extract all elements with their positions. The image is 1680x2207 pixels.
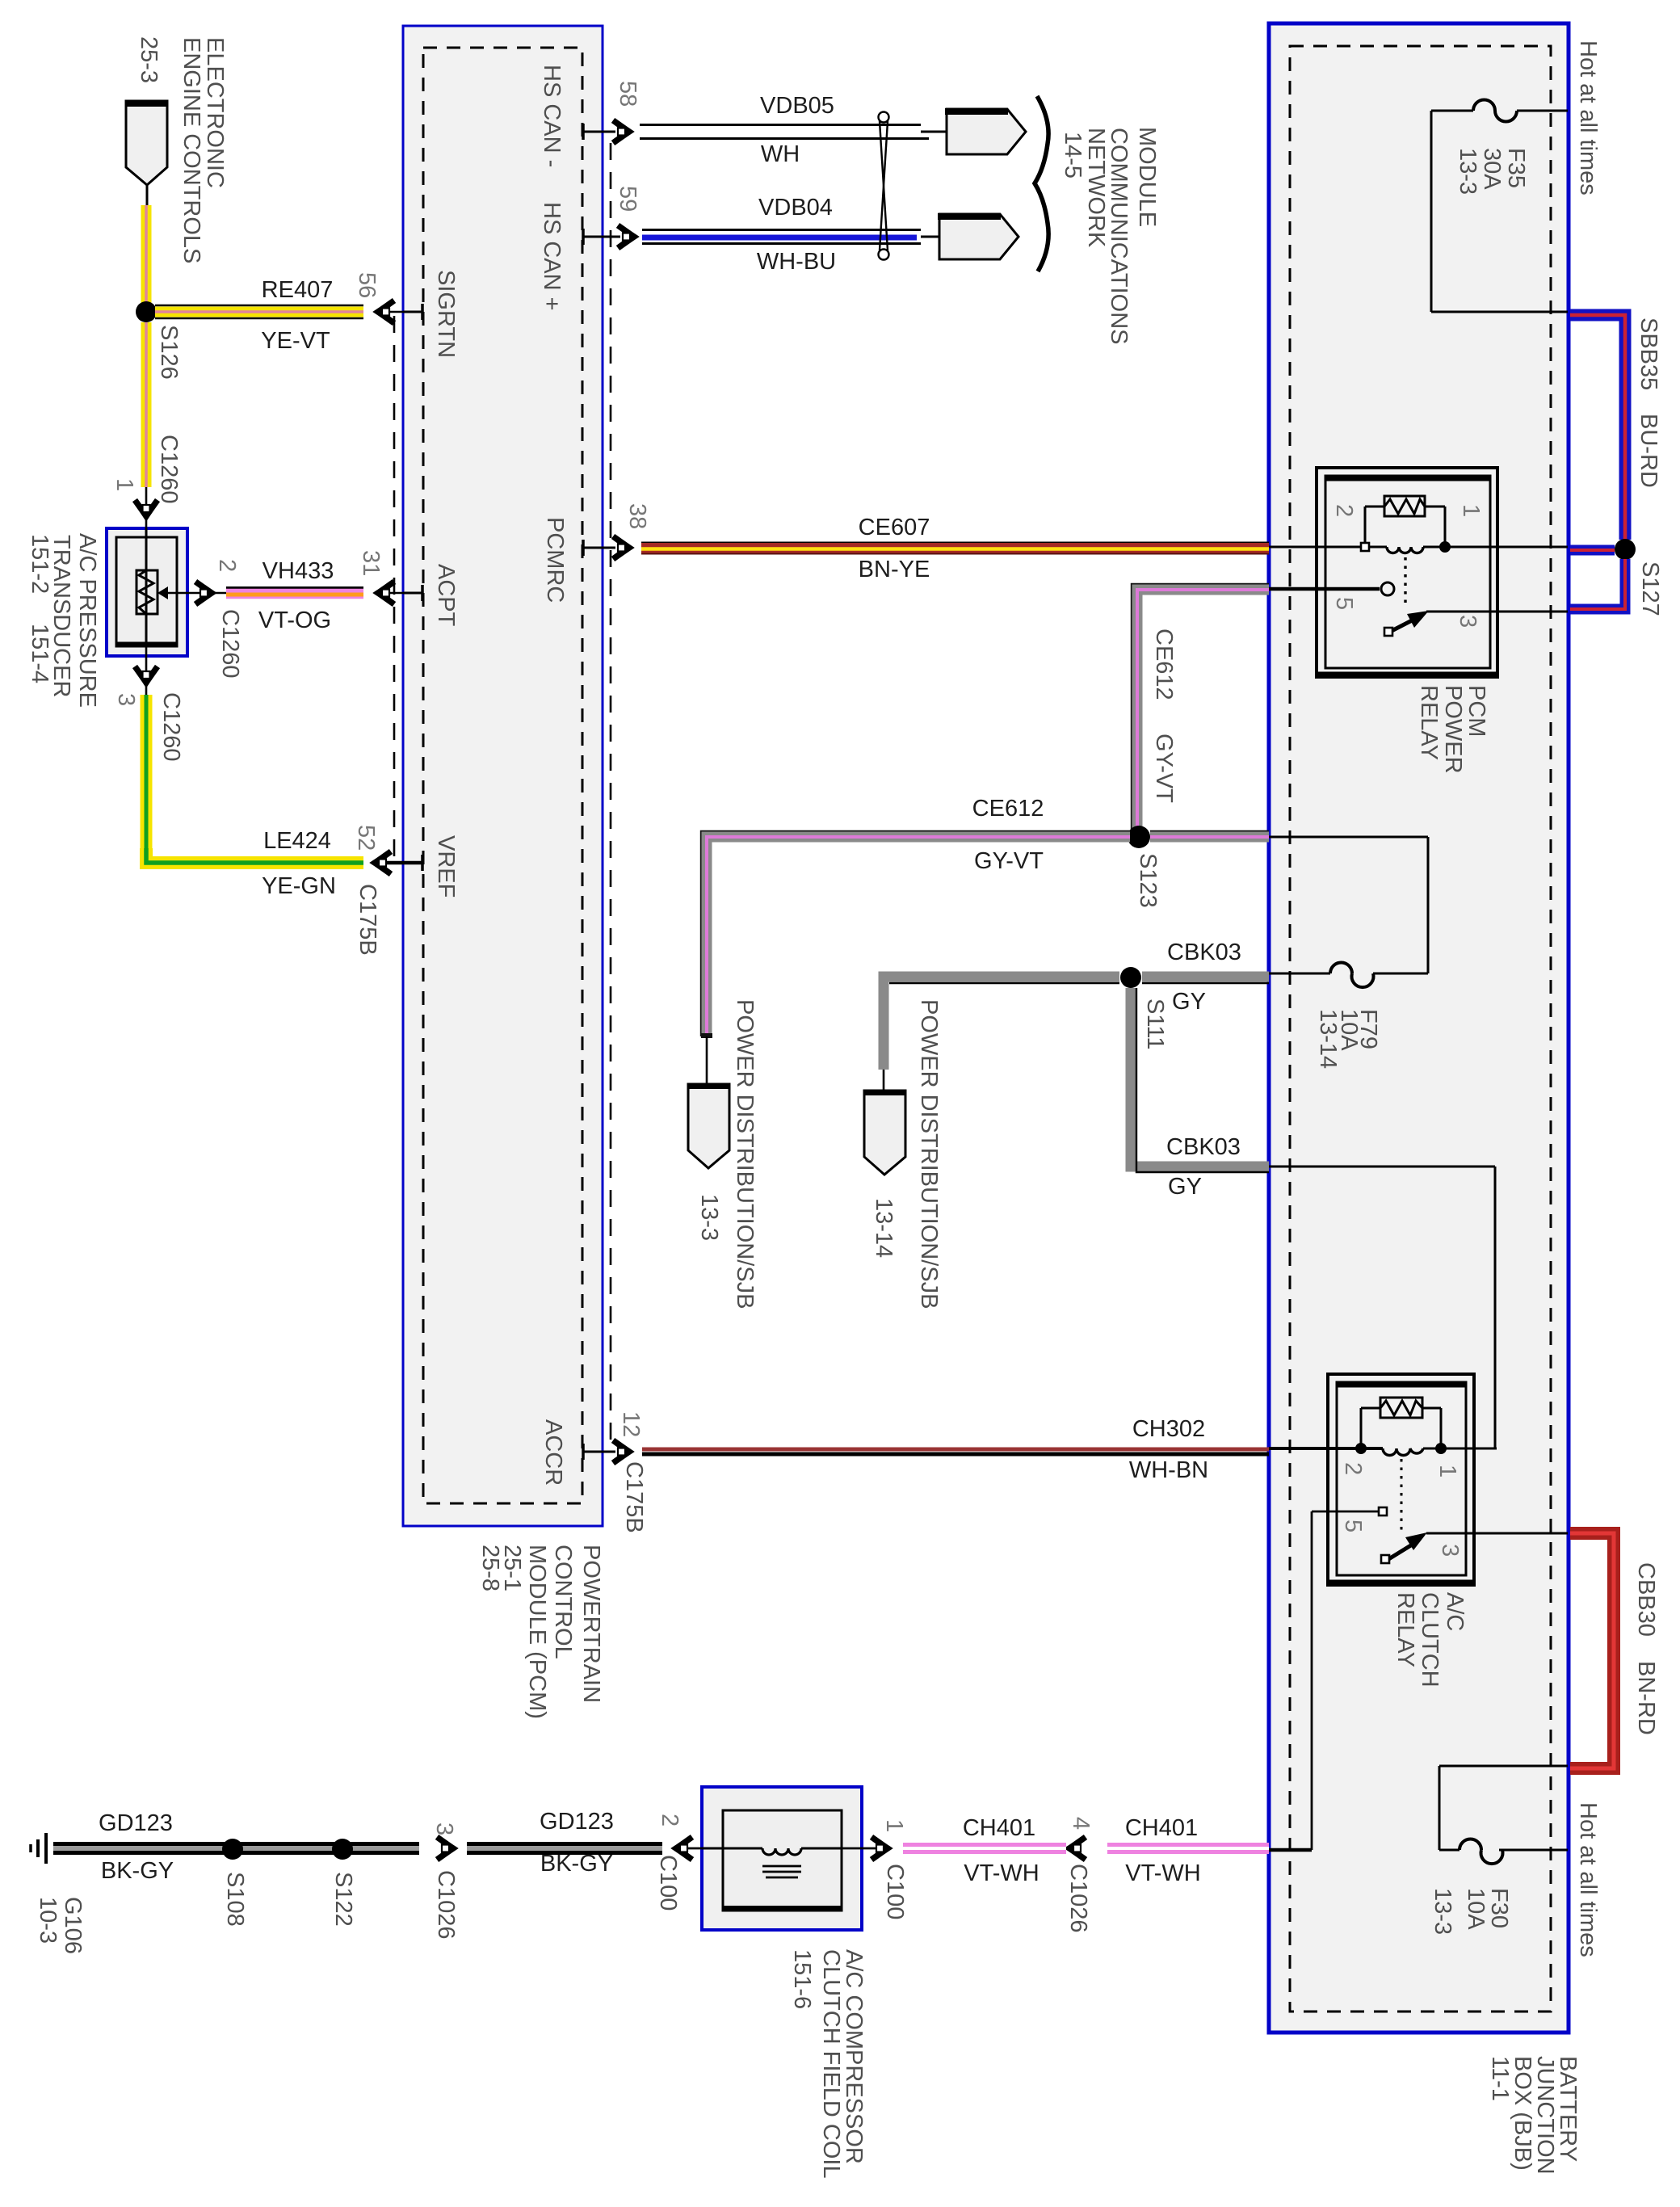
- svg-text:CBK03: CBK03: [1166, 1134, 1241, 1160]
- connector C1026 pin 4 arrow: [1069, 1837, 1086, 1860]
- svg-text:POWER: POWER: [1440, 685, 1466, 774]
- svg-text:S111: S111: [1142, 998, 1168, 1049]
- pin 56 stub inside PCM: [403, 311, 423, 313]
- svg-text:S123: S123: [1135, 853, 1161, 908]
- svg-text:S122: S122: [330, 1872, 356, 1927]
- svg-text:Hot at all times: Hot at all times: [1575, 40, 1601, 195]
- svg-text:S126: S126: [156, 325, 182, 380]
- A/C compressor clutch field coil box: [702, 1787, 862, 1930]
- junction S122: [332, 1839, 353, 1860]
- A/C CLUTCH RELAY internals: [1269, 1398, 1568, 1563]
- fuse F35 circuit inside BJB: [1431, 100, 1568, 313]
- wire YE-VT vertical (EEC to S126): [141, 205, 152, 304]
- svg-text:10A: 10A: [1463, 1888, 1489, 1930]
- svg-text:S127: S127: [1637, 561, 1663, 616]
- connector C1260 pin 1 arrow: [145, 487, 148, 528]
- svg-text:151-4: 151-4: [27, 624, 52, 683]
- svg-text:12: 12: [618, 1411, 644, 1437]
- svg-text:3: 3: [1455, 615, 1480, 628]
- connector C100 pin 1 arrow: [842, 1848, 888, 1850]
- connector C100 pin 2 arrow: [675, 1848, 702, 1850]
- svg-text:31: 31: [358, 550, 384, 576]
- label ELECTRONIC ENGINE CONTROLS 25-3: [136, 36, 228, 263]
- wire VDB04 WH-BU (twisted pair lower): [642, 230, 939, 244]
- svg-text:13-3: 13-3: [1455, 148, 1480, 195]
- svg-text:CE612: CE612: [1151, 628, 1177, 700]
- svg-text:GY-VT: GY-VT: [974, 848, 1044, 874]
- wire CE612 GY-VT (S123 left branch to SJB): [701, 831, 1130, 1038]
- wire YE-VT vertical (S126 down to C1260 pin 1): [141, 322, 152, 487]
- svg-text:PCMRC: PCMRC: [542, 517, 568, 603]
- svg-text:C1260: C1260: [158, 692, 184, 761]
- svg-text:C1260: C1260: [156, 435, 182, 503]
- svg-text:11-1: 11-1: [1487, 2056, 1513, 2101]
- svg-text:14-5: 14-5: [1060, 132, 1086, 179]
- svg-text:BK-GY: BK-GY: [540, 1851, 613, 1877]
- svg-text:F30: F30: [1486, 1888, 1512, 1928]
- fuse F30: [1459, 1839, 1503, 1864]
- svg-text:ACCR: ACCR: [540, 1419, 566, 1486]
- clutch relay pin 5 line: [1312, 1511, 1378, 1513]
- transducer variable resistor: [136, 570, 168, 614]
- label F79 10A 13-14: [1315, 1009, 1381, 1069]
- svg-text:VT-WH: VT-WH: [1125, 1860, 1200, 1886]
- wire VDB05 WH (twisted pair upper): [640, 125, 946, 139]
- svg-text:13-14: 13-14: [1315, 1009, 1341, 1069]
- svg-text:PCM: PCM: [1464, 685, 1489, 737]
- svg-text:13-14: 13-14: [871, 1198, 897, 1258]
- svg-text:CH401: CH401: [1125, 1815, 1198, 1841]
- F30 circuit inside BJB: [1439, 1766, 1568, 1850]
- label A/C COMPRESSOR CLUTCH FIELD COIL 151-6: [789, 1949, 867, 2179]
- svg-text:3: 3: [1437, 1544, 1463, 1557]
- wire LE424 YE-GN horizontal (to PCM pin 52): [146, 848, 363, 863]
- svg-text:YE-VT: YE-VT: [261, 328, 330, 354]
- svg-text:5: 5: [1340, 1520, 1366, 1532]
- clutch relay coil line: [1269, 1447, 1383, 1450]
- wire GD123 BK-GY (C100 to C1026): [467, 1842, 662, 1855]
- wire LE424 YE-GN vertical: [141, 695, 153, 857]
- wire CBK03 GY (S111 left branch to SJB): [884, 977, 1119, 1070]
- junction S127: [1615, 539, 1636, 560]
- wire VH433 VT-OG (transducer pin 2 to PCM pin 31): [226, 588, 363, 595]
- label A/C CLUTCH RELAY: [1392, 1592, 1468, 1688]
- svg-text:CBB30: CBB30: [1633, 1562, 1659, 1637]
- relay coil feed line pin2/pin1: [1269, 546, 1387, 549]
- label BATTERY JUNCTION BOX (BJB) 11-1: [1487, 2056, 1581, 2175]
- wire BU-RD (S127 to PCM power relay pin 3): [1570, 559, 1625, 609]
- wire to C1260 pin 2: [166, 592, 202, 595]
- svg-text:3: 3: [113, 693, 139, 706]
- svg-text:52: 52: [353, 825, 379, 851]
- wire from transducer bottom to C1260 pin 3: [145, 647, 148, 695]
- svg-text:GD123: GD123: [99, 1810, 173, 1836]
- svg-text:1: 1: [881, 1819, 907, 1832]
- pin 56 connector arrow C175B: [377, 311, 403, 313]
- svg-text:VH433: VH433: [262, 558, 334, 584]
- connector C175B dashed line (left of PCM): [393, 316, 396, 859]
- network grouping brace: [1035, 96, 1048, 271]
- connector C1026 pin 3 arrow: [437, 1837, 453, 1860]
- pin 31 connector arrow C175B: [377, 592, 403, 595]
- svg-text:G106: G106: [60, 1897, 86, 1954]
- svg-text:CE612: CE612: [972, 796, 1044, 822]
- wire CBK03 GY (S111 down branch to A/C clutch relay pin 1): [1131, 988, 1269, 1172]
- label A/C PRESSURE TRANSDUCER 151-2 151-4: [27, 533, 100, 708]
- PCM POWER RELAY internals: [1269, 496, 1568, 636]
- svg-text:38: 38: [624, 503, 650, 529]
- svg-text:VDB04: VDB04: [758, 195, 833, 221]
- svg-text:RE407: RE407: [262, 277, 334, 303]
- field coil internals: [702, 1848, 842, 1877]
- relay coil terminal 1: [1439, 541, 1451, 553]
- wire BU-RD (S127 to PCM power relay pin 1): [1570, 545, 1615, 556]
- label PCM POWER RELAY: [1416, 685, 1489, 774]
- svg-text:13-3: 13-3: [696, 1194, 722, 1241]
- svg-text:BK-GY: BK-GY: [101, 1858, 174, 1884]
- wire CE612 GY-VT (relay pin 5 to S123): [1132, 584, 1269, 837]
- wire RE407 YE-VT horizontal (S126 to PCM pin 56): [155, 305, 363, 318]
- svg-text:SIGRTN: SIGRTN: [433, 270, 459, 358]
- svg-text:NETWORK: NETWORK: [1083, 128, 1109, 248]
- svg-text:GD123: GD123: [540, 1809, 614, 1835]
- svg-text:CBK03: CBK03: [1167, 940, 1241, 965]
- relay switch blade: [1388, 619, 1415, 633]
- svg-text:POWER DISTRIBUTION/SJB: POWER DISTRIBUTION/SJB: [732, 999, 758, 1309]
- svg-text:A/C: A/C: [1442, 1592, 1468, 1631]
- svg-text:151-2: 151-2: [27, 534, 52, 594]
- svg-text:2: 2: [214, 559, 240, 572]
- svg-text:HS CAN -: HS CAN -: [539, 65, 565, 167]
- svg-text:4: 4: [1068, 1817, 1094, 1830]
- svg-text:POWERTRAIN: POWERTRAIN: [578, 1545, 604, 1703]
- connector C175B dashed line (right of PCM): [610, 143, 612, 1446]
- svg-text:GY: GY: [1168, 1174, 1202, 1200]
- junction S111: [1120, 967, 1141, 988]
- wire CE607 BN-YE (PCM pin 38 to BJB): [641, 543, 1269, 554]
- svg-text:A/C PRESSURE: A/C PRESSURE: [74, 533, 100, 708]
- svg-text:1: 1: [1434, 1465, 1460, 1478]
- svg-text:F35: F35: [1503, 148, 1529, 188]
- A/C pressure transducer box: [107, 528, 187, 656]
- svg-text:25-3: 25-3: [136, 36, 162, 83]
- svg-text:GY: GY: [1172, 989, 1206, 1015]
- junction S123: [1128, 826, 1150, 848]
- svg-text:C175B: C175B: [355, 884, 380, 956]
- svg-text:CH401: CH401: [963, 1815, 1035, 1841]
- svg-text:VREF: VREF: [433, 835, 459, 898]
- svg-text:ENGINE CONTROLS: ENGINE CONTROLS: [178, 37, 204, 263]
- BJB box (BATTERY JUNCTION BOX): [1269, 23, 1569, 2033]
- off-page connector pentagon (VDB05): [945, 109, 1026, 154]
- off-page connector pentagon POWER DISTRIBUTION/SJB 13-3: [706, 1036, 708, 1084]
- svg-text:C175B: C175B: [621, 1461, 647, 1533]
- svg-text:2: 2: [657, 1814, 682, 1827]
- svg-text:CLUTCH: CLUTCH: [1417, 1592, 1443, 1688]
- wire CH401 VT-WH (C1026 to field coil pin 1): [903, 1843, 1066, 1854]
- svg-text:58: 58: [615, 81, 640, 107]
- clutch relay coil terminals: [1355, 1443, 1367, 1454]
- svg-text:HS CAN +: HS CAN +: [539, 202, 565, 311]
- clutch relay armature dotted link: [1401, 1459, 1403, 1530]
- PCM POWER RELAY box: [1317, 468, 1497, 677]
- label F35 30A 13-3: [1455, 148, 1529, 195]
- PCM module box (POWERTRAIN CONTROL MODULE): [403, 26, 603, 1526]
- svg-text:C100: C100: [882, 1864, 908, 1919]
- relay pin 3 line: [1426, 611, 1568, 613]
- clutch relay switch blade: [1386, 1544, 1413, 1561]
- svg-text:1: 1: [1458, 504, 1484, 517]
- label F30 10A 13-3: [1430, 1888, 1512, 1935]
- svg-text:56: 56: [354, 272, 380, 298]
- svg-text:ELECTRONIC: ELECTRONIC: [202, 37, 228, 188]
- svg-text:RELAY: RELAY: [1416, 685, 1442, 760]
- svg-text:5: 5: [1331, 597, 1357, 610]
- svg-text:2: 2: [1331, 504, 1357, 517]
- svg-text:WH: WH: [761, 141, 800, 167]
- svg-text:MODULE (PCM): MODULE (PCM): [524, 1545, 550, 1719]
- svg-text:VT-OG: VT-OG: [258, 607, 331, 633]
- svg-text:C1260: C1260: [217, 609, 243, 678]
- svg-text:CONTROL: CONTROL: [550, 1545, 576, 1659]
- wire SBB35 BU-RD (F35 to S127): [1570, 315, 1625, 540]
- svg-text:C100: C100: [655, 1855, 681, 1911]
- svg-text:C1026: C1026: [433, 1870, 459, 1939]
- wire GD123 BK-GY (C1026 to ground G106): [53, 1842, 419, 1855]
- pin 52 connector arrow C175B: [377, 861, 423, 865]
- A/C CLUTCH RELAY box: [1328, 1374, 1474, 1585]
- junction S108: [222, 1839, 243, 1860]
- svg-text:BN-RD: BN-RD: [1633, 1661, 1659, 1735]
- CBK03 feed line inside BJB to clutch relay: [1269, 1167, 1495, 1448]
- svg-text:10-3: 10-3: [35, 1897, 61, 1944]
- PCM pin 58 stub: [582, 131, 615, 133]
- label MODULE COMMUNICATIONS NETWORK 14-5: [1060, 127, 1160, 345]
- junction S126: [136, 301, 157, 322]
- svg-text:BU-RD: BU-RD: [1636, 414, 1661, 488]
- relay armature dotted link: [1404, 557, 1406, 608]
- ground G106 symbol: [31, 1833, 46, 1864]
- clutch relay resistor: [1380, 1398, 1422, 1418]
- F79 feed line inside BJB: [1269, 837, 1428, 973]
- svg-text:RELAY: RELAY: [1392, 1592, 1418, 1667]
- svg-text:2: 2: [1340, 1462, 1366, 1475]
- svg-text:25-8: 25-8: [477, 1545, 503, 1591]
- svg-text:VDB05: VDB05: [760, 93, 834, 119]
- relay resistor: [1384, 496, 1425, 516]
- svg-text:S108: S108: [222, 1872, 248, 1927]
- svg-text:LE424: LE424: [263, 828, 331, 854]
- wire CBK03 GY (F79 to S111): [1142, 977, 1269, 983]
- clutch relay coil bumps: [1383, 1448, 1423, 1456]
- svg-text:1: 1: [111, 478, 137, 491]
- svg-text:151-6: 151-6: [789, 1949, 815, 2009]
- svg-text:CE607: CE607: [859, 515, 930, 540]
- wire CBB30 BN-RD (clutch relay pin 3 to F30): [1570, 1533, 1614, 1768]
- clutch relay pin 3 line: [1426, 1532, 1568, 1535]
- svg-text:SBB35: SBB35: [1636, 317, 1661, 390]
- svg-text:WH-BN: WH-BN: [1129, 1457, 1208, 1483]
- clutch relay pin5 line down to CH401: [1269, 1511, 1312, 1850]
- PCM pin 59 stub: [582, 236, 620, 238]
- wire CH401 VT-WH (BJB to C1026): [1107, 1843, 1269, 1854]
- relay coil terminal 2: [1361, 543, 1369, 551]
- off-page connector pentagon (VDB04): [938, 214, 1018, 259]
- svg-text:30A: 30A: [1479, 148, 1505, 190]
- wire stub from EEC connector: [146, 185, 149, 206]
- svg-text:59: 59: [615, 186, 640, 212]
- svg-text:ACPT: ACPT: [433, 564, 459, 627]
- svg-text:CLUTCH FIELD COIL: CLUTCH FIELD COIL: [818, 1949, 844, 2179]
- wire CH302 WH-BN (PCM pin 12 to A/C clutch relay coil): [642, 1449, 1269, 1454]
- svg-text:WH-BU: WH-BU: [757, 249, 836, 275]
- fuse F79: [1269, 963, 1374, 988]
- off-page connector ELECTRONIC ENGINE CONTROLS (pentagon): [125, 101, 168, 185]
- svg-text:VT-WH: VT-WH: [964, 1860, 1039, 1886]
- svg-text:CH302: CH302: [1132, 1416, 1205, 1442]
- PCM pin 38 stub (PCMRC): [582, 547, 615, 549]
- off-page connector pentagon POWER DISTRIBUTION/SJB 13-14: [883, 1070, 885, 1091]
- svg-text:POWER DISTRIBUTION/SJB: POWER DISTRIBUTION/SJB: [916, 999, 942, 1309]
- PCM pin 12 stub (ACCR): [582, 1451, 615, 1453]
- transducer internal wire: [145, 528, 148, 644]
- twisted pair crossover symbol: [879, 112, 889, 260]
- svg-text:YE-GN: YE-GN: [262, 873, 336, 899]
- svg-text:3: 3: [431, 1822, 457, 1835]
- wire CE612 GY-VT (S123 right branch into BJB): [1150, 831, 1269, 837]
- label POWERTRAIN CONTROL MODULE (PCM) 25-1 25-8: [477, 1545, 604, 1719]
- svg-text:Hot at all times: Hot at all times: [1575, 1802, 1601, 1957]
- svg-text:C1026: C1026: [1065, 1864, 1091, 1932]
- relay pin 5 line: [1269, 587, 1380, 591]
- svg-text:BN-YE: BN-YE: [859, 557, 930, 582]
- svg-text:13-3: 13-3: [1430, 1888, 1455, 1935]
- svg-text:MODULE: MODULE: [1134, 127, 1160, 227]
- relay coil bumps: [1387, 547, 1423, 553]
- svg-text:GY-VT: GY-VT: [1151, 734, 1177, 803]
